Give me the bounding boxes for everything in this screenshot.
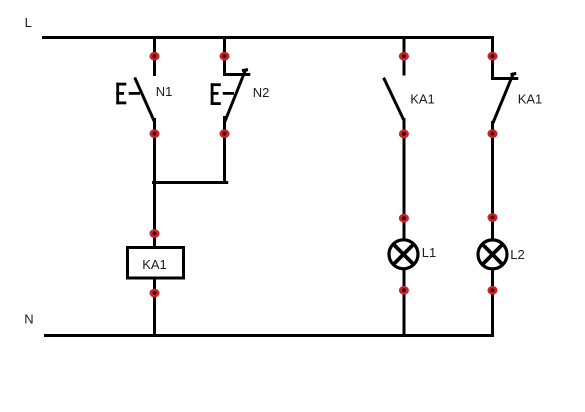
junction dot branch2 below N2 [219,129,229,138]
wire branch3 mid vertical [403,118,406,241]
coil KA1 box [128,248,184,279]
pushbutton N1 actuator E [116,83,126,105]
junction dot branch4 top [487,52,497,61]
wire branch4 bottom vertical [491,269,494,337]
junction dot branch3 above lamp [399,214,409,223]
pushbutton N1 blade [135,78,155,123]
junction dot branch3 top [399,52,409,61]
junction dot branch2 top [219,52,229,61]
svg-text:N: N [24,312,33,327]
wire branch4 top stub [491,36,494,80]
svg-text:L1: L1 [422,245,436,260]
junction dot branch1 below N1 [149,129,159,138]
wire branch2 top stub [223,37,226,76]
junction dot branch4 above lamp [487,213,497,222]
junction dot branch3 below contact [399,130,409,139]
wire branch3 top stub [403,37,406,76]
wire N bus (bottom horizontal) [44,334,494,337]
svg-text:N1: N1 [156,84,173,99]
junction dot branch1 below coil [149,289,159,298]
wire branch2 lower vertical [223,116,226,184]
pushbutton N2 fixed bar [223,73,250,76]
junction dot branch1 top [149,52,159,61]
wire junction branch1-branch2 [152,181,228,184]
svg-text:KA1: KA1 [142,257,167,272]
wire L bus (top horizontal) [42,36,494,39]
wire branch1 top stub [153,37,156,76]
svg-text:L2: L2 [510,247,524,262]
pushbutton N2 blade [225,70,248,123]
svg-text:KA1: KA1 [518,91,543,106]
wire branch1 lower vertical [153,118,156,336]
pushbutton N2 actuator link dash [223,92,234,95]
lamp L1 [389,240,418,269]
contact KA1 (NC) fixed bar [491,77,518,80]
pushbutton N1 actuator link dash [129,92,140,95]
junction dot branch4 below contact [487,129,497,138]
wire branch3 bottom vertical [403,269,406,337]
pushbutton N2 actuator E [211,83,221,105]
junction dot branch1 above coil [149,229,159,238]
wire branch4 mid vertical [491,121,494,241]
contact KA1 (NC) blade [493,73,517,124]
contact KA1 (NO) blade [384,78,404,121]
junction dot branch3 below lamp [399,286,409,295]
svg-text:N2: N2 [253,85,270,100]
junction dot branch4 below lamp [487,286,497,295]
svg-text:KA1: KA1 [410,91,435,106]
lamp L2 [478,240,507,269]
svg-text:L: L [25,15,32,30]
